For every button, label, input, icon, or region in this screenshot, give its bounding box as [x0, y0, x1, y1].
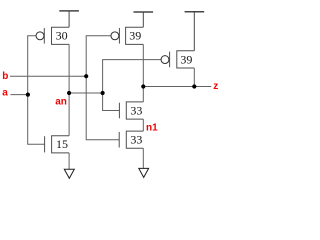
- wire source of 33 to ground: [142, 148, 144, 168]
- vdd supply V2: [134, 12, 154, 27]
- transistor 39 lower PMOS body: [161, 51, 194, 68]
- ground symbol left: [64, 169, 74, 178]
- transistor 39 upper PMOS body: [111, 27, 143, 44]
- wire a horizontal: [11, 94, 28, 96]
- wire z horizontal: [143, 86, 211, 88]
- wire source of 15 to ground: [68, 153, 70, 169]
- svg-text:an: an: [55, 97, 67, 108]
- junction dot an right: [101, 91, 105, 95]
- transistor 15 NMOS body: [45, 136, 70, 153]
- vdd supply V1: [59, 11, 79, 27]
- ground symbol right: [139, 168, 149, 177]
- junction dot z right: [192, 84, 196, 88]
- vdd supply V3: [185, 12, 205, 51]
- svg-text:b: b: [2, 71, 8, 82]
- svg-text:39: 39: [180, 52, 192, 66]
- wire an horizontal: [69, 92, 103, 94]
- junction dot b: [84, 74, 88, 78]
- junction dot z left: [141, 84, 145, 88]
- svg-text:a: a: [2, 87, 8, 98]
- svg-text:z: z: [213, 81, 218, 92]
- junction dot an left: [67, 91, 71, 95]
- wire an vertical drain chain: [68, 44, 70, 135]
- svg-text:15: 15: [56, 137, 68, 151]
- wire source of 39 to z: [193, 68, 195, 87]
- transistor 33 upper NMOS body: [119, 102, 143, 119]
- transistor 33 lower NMOS body: [119, 131, 143, 148]
- wire drain of 39 to z and 33: [142, 44, 144, 102]
- svg-text:39: 39: [129, 29, 141, 43]
- wire an vertical to gates of 39 and 33: [103, 60, 162, 111]
- svg-text:n1: n1: [146, 123, 158, 134]
- svg-text:33: 33: [130, 133, 142, 147]
- transistor 30 PMOS body: [36, 27, 69, 44]
- svg-text:33: 33: [130, 103, 142, 117]
- junction dot a: [26, 93, 30, 97]
- wire node n1 between 33 and 33: [142, 119, 144, 131]
- wire a vertical to gates of 30 and 15: [28, 36, 45, 145]
- wire b horizontal: [10, 75, 86, 77]
- wire b vertical to gates of 39 and 33: [86, 36, 119, 140]
- svg-text:30: 30: [56, 29, 68, 43]
